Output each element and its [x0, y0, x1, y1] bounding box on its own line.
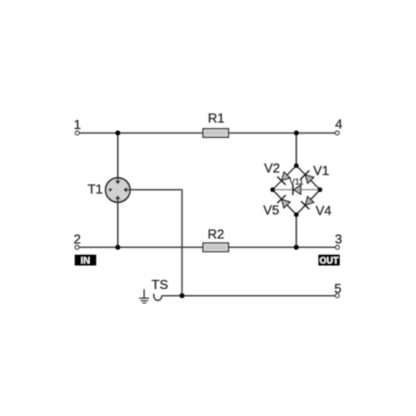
wire T1 top lead [117, 133, 119, 181]
wire top rail 1-4 [79, 132, 335, 134]
svg-text:OUT: OUT [320, 255, 340, 265]
svg-text:V1: V1 [313, 163, 329, 178]
terminal 2 [75, 245, 79, 249]
suppressor diode V11 [293, 184, 301, 195]
svg-text:V4: V4 [316, 203, 332, 218]
svg-text:5: 5 [334, 281, 341, 296]
node bridge top [294, 163, 299, 168]
wire bridge middle rail [273, 189, 320, 191]
svg-text:V2: V2 [264, 161, 280, 176]
terminal 4 [335, 131, 339, 135]
wire bottom rail 2-3 [79, 246, 335, 248]
svg-text:IN: IN [81, 255, 91, 266]
svg-text:R1: R1 [208, 111, 225, 126]
bridge diamond wires [273, 166, 320, 215]
wire T1 bottom lead [117, 199, 119, 248]
terminal 1 [75, 131, 79, 135]
wire bridge bottom stem [295, 215, 297, 248]
resistor R1 [203, 129, 229, 138]
svg-text:4: 4 [335, 117, 342, 132]
junction TS rail / T1 ground lead [180, 293, 185, 298]
svg-text:T1: T1 [88, 182, 103, 197]
terminal 5 [335, 294, 339, 298]
resistor R2 [203, 243, 229, 252]
wire T1 right lead to TS net [127, 190, 182, 296]
svg-text:3: 3 [335, 232, 342, 247]
junction bottom rail / bridge [294, 245, 299, 250]
tag IN [75, 255, 97, 267]
tag OUT [318, 255, 339, 266]
diode V5 [277, 195, 290, 208]
node bridge bottom [294, 212, 299, 217]
svg-text:TS: TS [152, 277, 169, 292]
node bridge left [270, 187, 275, 192]
svg-text:2: 2 [74, 231, 81, 246]
wire TS rail to terminal 5 [162, 295, 335, 297]
diode V2 [277, 172, 290, 185]
svg-text:V5: V5 [263, 203, 279, 218]
svg-text:1: 1 [74, 117, 81, 132]
svg-text:V11: V11 [290, 177, 304, 186]
disconnect link TS [154, 294, 162, 301]
diode V4 [301, 197, 314, 210]
junction top rail / bridge [294, 131, 299, 136]
terminal 3 [336, 245, 340, 249]
node bridge right [318, 187, 323, 192]
junction bottom rail / T1 [115, 245, 120, 250]
wire bridge top stem [295, 133, 297, 166]
junction top rail / T1 [115, 131, 120, 136]
ground [139, 289, 149, 303]
svg-text:R2: R2 [208, 227, 225, 242]
gas discharge tube T1 [106, 178, 131, 202]
diode V1 [301, 171, 314, 184]
